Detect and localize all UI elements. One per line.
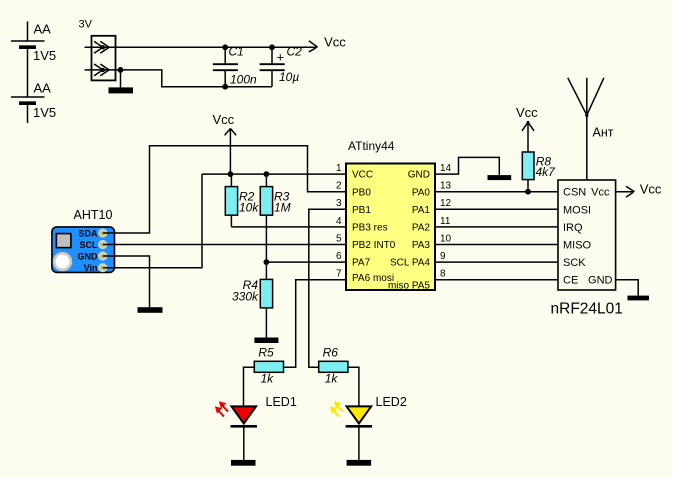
svg-text:Vcc: Vcc xyxy=(640,182,662,197)
wire AHT10 GND xyxy=(103,256,150,307)
svg-text:5: 5 xyxy=(336,233,342,244)
junction connector ground tap xyxy=(118,67,124,73)
IC U1 ATtiny44 xyxy=(336,139,452,292)
resistor R3 1M xyxy=(260,174,290,262)
ground nRF24L01 xyxy=(628,296,650,301)
junction Vcc-R3 xyxy=(264,171,270,177)
junction R3-R4-pin6 xyxy=(264,259,270,265)
svg-text:1: 1 xyxy=(336,163,342,174)
svg-text:1M: 1M xyxy=(274,200,291,214)
svg-text:GND: GND xyxy=(588,275,613,287)
svg-text:SCK: SCK xyxy=(563,257,586,269)
svg-text:1V5: 1V5 xyxy=(33,48,56,63)
svg-text:14: 14 xyxy=(440,163,452,174)
capacitor C1 100n xyxy=(213,44,257,89)
wire SCL to pin 5 xyxy=(103,244,346,246)
svg-text:miso PA5: miso PA5 xyxy=(388,281,430,292)
svg-text:4: 4 xyxy=(336,216,342,227)
svg-text:SDA: SDA xyxy=(78,229,98,239)
svg-text:R6: R6 xyxy=(323,346,339,360)
connector X1 3V supply xyxy=(79,19,116,81)
svg-text:nRF24L01: nRF24L01 xyxy=(551,301,623,318)
junction R8 pin13 xyxy=(525,189,531,195)
svg-text:C1: C1 xyxy=(229,45,244,59)
ground AHT10 xyxy=(138,307,163,313)
wire pin 12 to MOSI xyxy=(435,208,558,210)
svg-text:SCL: SCL xyxy=(80,240,99,250)
wire bottom supply xyxy=(85,70,273,87)
svg-text:Vcc: Vcc xyxy=(213,112,235,127)
svg-text:Vin: Vin xyxy=(84,263,98,273)
svg-text:IRQ: IRQ xyxy=(563,222,583,234)
svg-text:VCC: VCC xyxy=(352,170,373,181)
svg-text:1V5: 1V5 xyxy=(33,105,56,120)
svg-text:Vcc: Vcc xyxy=(324,34,346,49)
wire top supply rail to Vcc xyxy=(85,46,318,48)
svg-text:PA7: PA7 xyxy=(352,258,371,269)
svg-text:PA1: PA1 xyxy=(412,205,431,216)
svg-text:PB1: PB1 xyxy=(352,205,371,216)
antenna Ant xyxy=(568,78,614,180)
svg-text:11: 11 xyxy=(440,216,451,227)
LED LED1 red xyxy=(215,395,297,460)
svg-text:2: 2 xyxy=(336,181,342,192)
wire SDA to pin 2 xyxy=(103,146,346,233)
junction Vcc-R2 xyxy=(228,171,234,177)
wire pin 8 to CE xyxy=(435,279,558,281)
power Vcc above R2 xyxy=(213,112,237,174)
resistor R4 330k xyxy=(232,262,273,337)
svg-text:8: 8 xyxy=(440,269,446,280)
wire Vin to Vcc rail xyxy=(103,174,202,268)
resistor R8 4k7 xyxy=(516,105,556,192)
LED LED2 yellow xyxy=(330,395,407,460)
svg-text:100n: 100n xyxy=(230,73,257,87)
svg-text:CSN: CSN xyxy=(563,187,586,199)
svg-text:3: 3 xyxy=(336,198,342,209)
svg-text:330k: 330k xyxy=(232,289,259,303)
svg-text:MOSI: MOSI xyxy=(563,204,591,216)
wire pin 9 to SCK xyxy=(435,261,558,263)
svg-text:10k: 10k xyxy=(239,200,259,214)
wire pin 11 to IRQ xyxy=(435,226,558,228)
ground near connector xyxy=(109,70,134,94)
wire R2 to pin 4 xyxy=(231,226,346,228)
battery cell 2 AA 1V5 xyxy=(11,47,56,123)
wire pin 6 xyxy=(266,261,346,263)
wire Vcc rail to pin 1 xyxy=(202,173,346,175)
svg-text:PB2 INT0: PB2 INT0 xyxy=(352,240,396,251)
resistor R5 1k xyxy=(254,346,283,386)
resistor R2 10k xyxy=(225,174,259,227)
svg-text:PA0: PA0 xyxy=(412,187,431,198)
wire pin 3 to R6 riser xyxy=(309,209,346,367)
power Vcc right of nRF24L01 xyxy=(616,182,662,198)
svg-text:CE: CE xyxy=(563,275,578,287)
battery cell 1 AA 1V5 xyxy=(11,22,56,64)
svg-text:AA: AA xyxy=(34,22,52,37)
ground pin 14 xyxy=(488,175,512,180)
svg-text:PB3 res: PB3 res xyxy=(352,223,388,234)
svg-text:6: 6 xyxy=(336,251,342,262)
svg-text:1k: 1k xyxy=(325,372,339,386)
svg-text:1k: 1k xyxy=(261,372,275,386)
svg-text:GND: GND xyxy=(408,170,430,181)
module nRF24L01 xyxy=(551,180,623,318)
wire nRF GND xyxy=(616,280,639,296)
svg-text:R5: R5 xyxy=(258,346,274,360)
svg-text:AA: AA xyxy=(34,81,52,96)
ground LED2 xyxy=(347,460,372,466)
svg-text:3V: 3V xyxy=(79,19,93,31)
svg-text:LED2: LED2 xyxy=(376,395,407,409)
svg-text:10µ: 10µ xyxy=(279,70,299,84)
svg-text:Vcc: Vcc xyxy=(591,187,610,199)
ground below R4 xyxy=(254,338,278,344)
svg-text:SCL PA4: SCL PA4 xyxy=(390,258,430,269)
svg-text:PA3: PA3 xyxy=(412,240,431,251)
svg-text:Vcc: Vcc xyxy=(516,105,538,120)
svg-text:12: 12 xyxy=(440,198,452,209)
svg-text:4k7: 4k7 xyxy=(536,165,557,179)
svg-text:9: 9 xyxy=(440,251,446,262)
svg-text:GND: GND xyxy=(78,252,99,262)
wire pin 13 to CSN xyxy=(435,191,558,193)
svg-text:+: + xyxy=(277,50,285,65)
svg-text:7: 7 xyxy=(336,269,342,280)
wire R5 to LED1 xyxy=(244,367,255,406)
svg-text:LED1: LED1 xyxy=(266,395,297,409)
svg-text:PA2: PA2 xyxy=(412,223,431,234)
svg-text:ATtiny44: ATtiny44 xyxy=(348,139,395,153)
svg-text:C2: C2 xyxy=(287,45,303,59)
wire R6 to LED2 xyxy=(348,367,359,406)
resistor R6 1k xyxy=(319,346,348,386)
wire pin 14 to ground xyxy=(435,157,499,175)
svg-text:10: 10 xyxy=(440,233,452,244)
sensor module AHT10 xyxy=(52,208,115,273)
svg-text:AHT10: AHT10 xyxy=(74,208,113,222)
power Vcc top right arrow xyxy=(309,34,346,52)
svg-text:13: 13 xyxy=(440,181,452,192)
wire pin 7 to R5 riser xyxy=(284,280,347,368)
ground LED1 xyxy=(231,460,256,466)
svg-text:MISO: MISO xyxy=(563,240,592,252)
wire pin 10 to MISO xyxy=(435,244,558,246)
svg-text:Ант: Ант xyxy=(593,126,614,140)
svg-text:PB0: PB0 xyxy=(352,187,371,198)
capacitor C2 10u xyxy=(260,44,303,86)
